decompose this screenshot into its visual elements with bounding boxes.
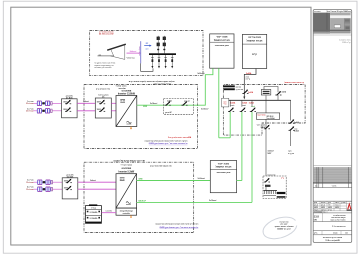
svg-text:DC BOX: DC BOX	[66, 97, 73, 99]
svg-text:וולטאית על גג מבנה: וולטאית על גג מבנה	[330, 219, 346, 222]
svg-text:חברת החשמל: חברת החשמל	[215, 165, 231, 169]
svg-text:קיימת: קיימת	[246, 79, 250, 81]
svg-text:3x25A: 3x25A	[242, 102, 248, 105]
svg-text:סטרינג 2: סטרינג 2	[27, 108, 34, 110]
svg-text:חברת החשמל: חברת החשמל	[214, 38, 230, 42]
svg-text:שעון אסטרונומי: שעון אסטרונומי	[216, 172, 230, 174]
svg-text:05/22: 05/22	[335, 207, 339, 209]
svg-text:GOODWE: GOODWE	[122, 91, 132, 93]
svg-text:מזגן קיים: מזגן קיים	[288, 153, 294, 155]
svg-text:כבל סולארי: כבל סולארי	[126, 56, 135, 59]
svg-text:מפת גוש: מפת גוש	[314, 11, 321, 13]
svg-text:05/22: 05/22	[328, 207, 332, 209]
svg-text:kW: kW	[314, 219, 317, 221]
svg-text:מחבר DC: מחבר DC	[105, 211, 112, 213]
svg-text:בית פנחס רח' 5: בית פנחס רח' 5	[332, 226, 346, 228]
svg-text:סטרינג 1: סטרינג 1	[27, 101, 34, 103]
svg-text:תיאור: תיאור	[332, 186, 337, 188]
svg-text:DC BOX: DC BOX	[67, 176, 74, 178]
svg-text:5x16mm²: 5x16mm²	[201, 108, 209, 111]
svg-text:זרם: זרם	[146, 47, 149, 50]
svg-text:חיבור הזנה מלוח קיים 3x63A: חיבור הזנה מלוח קיים 3x63A	[168, 136, 192, 139]
svg-text:פס הארקה: פס הארקה	[236, 89, 243, 91]
svg-text:1000V: 1000V	[97, 109, 101, 111]
svg-text:קיים: קיים	[281, 177, 284, 179]
svg-text:Inverter 5.3kW: Inverter 5.3kW	[118, 170, 135, 173]
svg-text:ממסר הגנה: ממסר הגנה	[257, 114, 266, 116]
svg-text:פס אפס: פס אפס	[236, 86, 242, 88]
svg-text:בע"מ: בע"מ	[328, 209, 332, 211]
svg-text:05/22: 05/22	[321, 207, 325, 209]
svg-text:ממ"ד קומת גג עליון: ממ"ד קומת גג עליון	[153, 83, 171, 86]
svg-text:קיים: קיים	[252, 53, 257, 56]
svg-text:מהפך היברידי: מהפך היברידי	[121, 165, 133, 167]
svg-text:קנ"מ 1:500: קנ"מ 1:500	[342, 42, 352, 44]
svg-text:מגן ברק: מגן ברק	[184, 101, 191, 103]
svg-text:מפסק ראשי: מפסק ראשי	[257, 125, 266, 127]
svg-text:שרטט: שרטט	[321, 202, 326, 204]
svg-text:סטרינג 3: סטרינג 3	[27, 180, 34, 182]
svg-text:5x16mm²: 5x16mm²	[197, 72, 205, 75]
svg-text:N2XY: N2XY	[268, 153, 272, 155]
svg-text:שעון אסטרונומי: שעון אסטרונומי	[215, 45, 229, 47]
svg-text:בדק: בדק	[328, 202, 331, 204]
svg-text:2x6mm²: 2x6mm²	[130, 50, 137, 53]
svg-text:כל העבודות יבוצעו עפ"י חוק החש: כל העבודות יבוצעו עפ"י חוק החשמל ותקן 61…	[149, 142, 188, 145]
svg-text:גליון: גליון	[314, 232, 317, 235]
svg-text:05/22: 05/22	[314, 207, 318, 209]
svg-text:לוח חשמל תלת פאזי קיים: לוח חשמל תלת פאזי קיים	[150, 165, 172, 168]
svg-text:חדר טכני בקומת קרקע של המבנה: חדר טכני בקומת קרקע של המבנה	[113, 159, 145, 162]
svg-text:סכמה חד קווית מערכת: סכמה חד קווית מערכת	[323, 236, 343, 239]
svg-text:פס השוואה: פס השוואה	[267, 174, 275, 176]
svg-text:3x63A: 3x63A	[246, 72, 252, 75]
svg-text:קו תיחום רשות החשמל: קו תיחום רשות החשמל	[284, 81, 304, 84]
svg-text:חח"י: חח"י	[223, 103, 226, 105]
svg-text:להנחיות יצרן הפאנלים: להנחיות יצרן הפאנלים	[95, 66, 112, 69]
svg-text:חברת החשמל: חברת החשמל	[247, 38, 263, 42]
svg-text:הארקה יש לחבר לפס השוואת פוטנצ: הארקה יש לחבר לפס השוואת פוטנציאלים של ה…	[155, 222, 199, 225]
svg-text:רשיון מס' 123456: רשיון מס' 123456	[277, 228, 291, 231]
svg-text:תלת פאזי: תלת פאזי	[118, 87, 126, 90]
svg-text:סולארית 13.8kW: סולארית 13.8kW	[325, 239, 340, 242]
svg-text:5x16mm²: 5x16mm²	[209, 199, 217, 202]
svg-text:5x16mm²: 5x16mm²	[198, 177, 206, 180]
svg-text:1000V: 1000V	[97, 102, 101, 104]
svg-text:46 פאנלים 300W: 46 פאנלים 300W	[99, 33, 114, 36]
svg-text:charge/discharge: charge/discharge	[120, 210, 133, 212]
svg-text:3x25A: 3x25A	[249, 102, 255, 105]
svg-text:GOODWE: GOODWE	[121, 168, 131, 170]
svg-text:הזנה: הזנה	[246, 76, 249, 78]
svg-text:13.8: 13.8	[314, 215, 320, 219]
svg-text:3x25A: 3x25A	[230, 102, 236, 105]
svg-text:הנדסה: הנדסה	[321, 209, 326, 211]
svg-text:5x16mm²: 5x16mm²	[150, 102, 158, 105]
svg-text:כל העבודות יבוצעו עפ"י חוק החש: כל העבודות יבוצעו עפ"י חוק החשמל ותקן 61…	[160, 226, 199, 229]
svg-text:שדה פאנלים קיים: שדה פאנלים קיים	[96, 88, 111, 91]
svg-text:פחת: פחת	[294, 128, 297, 130]
svg-text:רשת: רשת	[223, 101, 226, 103]
